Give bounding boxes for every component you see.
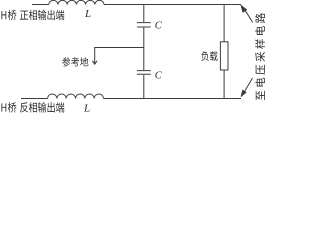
wire: load branch lower stem [223,70,225,99]
svg-text:C: C [155,71,163,82]
label: vertical text to voltage sampling circuit 至电压采样电路 [255,13,265,100]
wire: bottom rail from L2 to right arrow end [104,98,242,100]
svg-text:L: L [83,103,90,114]
arrowhead bottom (points to bottom rail end) [241,90,247,97]
wire: reference ground tap from mid node [95,48,144,64]
label: load text 负载 [201,51,217,61]
wire: top rail from H-bridge positive output to inductor L1 [32,4,49,6]
capacitor C2 [137,71,151,75]
wire: capacitor branch lower stem [143,75,145,99]
resistor RL load box [220,42,228,70]
wire: capacitor branch upper stem [143,5,145,23]
arrow: bottom sense line to voltage sampling [244,78,252,92]
svg-text:L: L [84,8,91,20]
node A: H-bridge positive output label [1,10,64,20]
inductor L2 (bottom) [48,94,104,99]
wire: bottom rail from H-bridge negative output to inductor L2 [21,98,48,100]
wire: top rail from L1 to right arrow end [104,4,241,6]
arrow: top sense line to voltage sampling [245,9,253,22]
inductor L1 (top) [49,0,104,4]
svg-text:C: C [155,21,163,32]
ground arrow (reference ground pointer) [92,61,97,64]
wire: load branch upper stem [223,5,225,42]
capacitor C1 [137,23,151,27]
node B: H-bridge negative output label [1,102,64,112]
arrowhead top (points to top rail end) [241,5,247,13]
label: reference ground text 参考地 [62,57,88,66]
wire: capacitor branch middle stem (C1 to C2, mid node) [143,28,145,71]
